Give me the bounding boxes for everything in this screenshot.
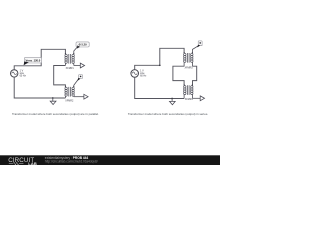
- value flag box 5.29 (XFMR1 secondary top): [76, 42, 89, 49]
- transformer XFMR1: [65, 53, 74, 64]
- XFMR3 leads: [184, 46, 198, 66]
- svg-text:Transformer model where both s: Transformer model where both secondaries…: [128, 112, 208, 116]
- ground: [170, 99, 176, 105]
- wire net C (source bottom to XFMR2 primary bottom): [14, 77, 65, 98]
- node flag F2 (XFMR2 secondary top): [78, 75, 83, 81]
- svg-text:LAB: LAB: [28, 161, 37, 165]
- wire net C2 (source bottom to XFMR4 primary bottom): [135, 77, 184, 98]
- ground: [50, 98, 56, 105]
- transformer XFMR2: [65, 86, 74, 97]
- wire net A (source top to XFMR1 primary top): [14, 49, 65, 69]
- logo waveform: [9, 162, 24, 165]
- transformer XFMR3: [184, 52, 193, 63]
- node flag F3 (XFMR3 secondary top): [197, 41, 202, 48]
- output arrow flag A2 (XFMR2 secondary bottom): [74, 94, 88, 99]
- label box Vrms_120.0: [24, 57, 42, 65]
- svg-text:Transformer model where both s: Transformer model where both secondaries…: [12, 112, 99, 116]
- svg-text:60 Hz: 60 Hz: [140, 75, 147, 78]
- svg-text:XFMR2: XFMR2: [65, 99, 74, 102]
- svg-text:XFMR1: XFMR1: [66, 67, 75, 70]
- V2 value labels: [140, 69, 147, 77]
- svg-text:60 Hz: 60 Hz: [20, 75, 27, 78]
- svg-text:http://circuitlab.com/cmub17da: http://circuitlab.com/cmub17da4dqv8/: [45, 160, 98, 164]
- voltage source V2: [131, 70, 139, 78]
- junction node: [159, 64, 161, 66]
- wire net A2 (source top to XFMR3 primary top): [135, 48, 184, 69]
- svg-text:Vrms_120.0: Vrms_120.0: [26, 58, 41, 62]
- transformer XFMR4: [184, 84, 193, 95]
- wire secondary link (XFMR3 secondary bottom to XFMR4 secondary top): [193, 66, 197, 86]
- output arrow flag A4 (XFMR4 secondary bottom): [193, 96, 205, 101]
- voltage source V1: [11, 70, 18, 77]
- XFMR2 leads: [65, 79, 78, 98]
- junction node: [52, 97, 54, 99]
- output arrow flag A1 (XFMR1 secondary bottom): [74, 63, 85, 68]
- wire primary link (XFMR3 primary bottom to XFMR4 primary top): [173, 66, 184, 86]
- XFMR1 leads: [65, 47, 77, 66]
- svg-text:XFMR4: XFMR4: [185, 98, 194, 101]
- XFMR4 leads: [184, 95, 192, 99]
- svg-text:Φ 5.29: Φ 5.29: [79, 43, 87, 47]
- V1 value labels: [20, 69, 27, 77]
- junction node: [171, 98, 173, 100]
- svg-text:XFMR3: XFMR3: [185, 67, 194, 70]
- wire net B (XFMR1 primary bottom to XFMR2 primary top): [54, 66, 66, 88]
